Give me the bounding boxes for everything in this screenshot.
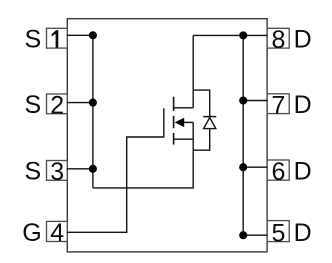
junction dot pin5/drain rail — [239, 231, 247, 239]
MOSFET Q1 channel segment bottom — [173, 133, 175, 145]
MOSFET Q1 source lead — [174, 138, 194, 140]
body diode D1 cathode bar — [203, 116, 216, 118]
pin 7 box — [267, 94, 289, 114]
body diode D1 triangle — [204, 118, 216, 129]
svg-text:S: S — [25, 91, 42, 119]
wire pin5 to drain rail — [243, 234, 267, 236]
junction dot pin8/drain rail — [239, 31, 247, 39]
MOSFET Q1 gate bar — [163, 108, 165, 137]
pin 5 box — [267, 221, 289, 242]
svg-text:7: 7 — [271, 91, 285, 119]
svg-text:S: S — [25, 26, 42, 54]
pin 3 box — [47, 161, 68, 181]
MOSFET Q1 channel segment top — [173, 97, 175, 111]
wire pin3 to source rail — [67, 168, 93, 170]
junction dot pin1/source rail — [89, 31, 97, 39]
pin 8 box — [267, 28, 289, 48]
MOSFET Q1 channel segment middle — [173, 116, 175, 129]
svg-text:S: S — [25, 158, 42, 186]
pin 2 box — [47, 94, 68, 114]
MOSFET Q1 drain lead — [174, 107, 194, 109]
wire pin6 to drain rail — [243, 166, 267, 168]
svg-text:5: 5 — [271, 219, 285, 247]
svg-text:6: 6 — [271, 158, 285, 186]
junction dot pin3/source rail — [89, 165, 97, 173]
wire pin1 to source rail — [67, 34, 93, 36]
svg-text:4: 4 — [50, 219, 64, 247]
svg-text:3: 3 — [50, 158, 64, 186]
svg-text:D: D — [294, 26, 312, 54]
wire gate trace pin4 to gate — [67, 137, 164, 232]
wire source rail to MOSFET source — [93, 122, 193, 187]
wire pin7 to drain rail — [243, 100, 267, 102]
MOSFET Q1 body arrow line — [184, 121, 193, 123]
junction dot pin6/drain rail — [239, 163, 247, 171]
wire pin2 to source rail — [67, 102, 93, 104]
MOSFET Q1 body arrow — [175, 118, 185, 127]
pin 4 box — [47, 221, 68, 241]
wire source rail vertical — [92, 35, 94, 188]
wire diode anode bottom — [193, 129, 210, 150]
svg-text:D: D — [294, 91, 312, 119]
junction dot pin7/drain rail — [239, 96, 247, 104]
wire drain vertical — [192, 35, 194, 107]
svg-text:D: D — [294, 219, 312, 247]
svg-text:2: 2 — [50, 92, 64, 120]
svg-text:G: G — [22, 219, 41, 247]
junction dot pin2/source rail — [89, 99, 97, 107]
wire drain rail vertical right — [242, 35, 244, 235]
pin 1 box — [47, 28, 68, 48]
IC package body U1 — [67, 19, 267, 252]
pin 1 number — [52, 30, 59, 48]
wire diode branch top — [193, 90, 210, 116]
svg-text:D: D — [294, 158, 312, 186]
wire drain top rail to pin8 — [193, 34, 267, 36]
pin 6 box — [267, 160, 289, 180]
svg-text:8: 8 — [271, 26, 285, 54]
